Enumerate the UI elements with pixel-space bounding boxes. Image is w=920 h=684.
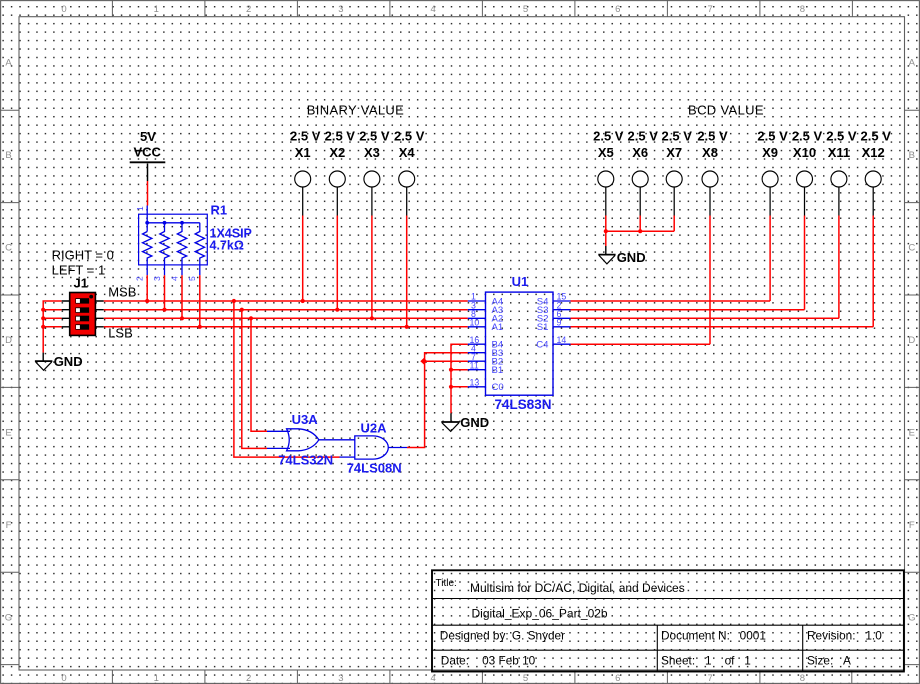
wire bus row3: [104, 317, 468, 319]
svg-text:5: 5: [187, 276, 197, 281]
svg-text:14: 14: [557, 335, 567, 345]
svg-text:74LS08N: 74LS08N: [347, 461, 402, 476]
svg-text:C0: C0: [492, 382, 504, 393]
svg-text:B: B: [909, 150, 915, 161]
ground GND (below U1): [441, 413, 489, 431]
svg-text:X6: X6: [632, 145, 648, 160]
pin 4 B3: [468, 352, 486, 354]
svg-text:E: E: [909, 428, 915, 439]
probe X12: [861, 128, 892, 326]
pin 2 S3: [553, 309, 571, 311]
probe X3: [359, 128, 390, 320]
wire S2 to X11: [571, 317, 839, 319]
svg-text:2.5 V: 2.5 V: [394, 128, 425, 143]
pin 11 B1: [468, 369, 486, 371]
svg-text:2.5 V: 2.5 V: [628, 128, 659, 143]
IC U1 74LS83N: [468, 274, 571, 412]
pin 9 S1: [553, 326, 571, 328]
svg-text:3: 3: [338, 673, 343, 684]
svg-text:2.5 V: 2.5 V: [662, 128, 693, 143]
svg-text:MSB: MSB: [108, 285, 136, 300]
svg-text:6: 6: [615, 673, 620, 684]
svg-text:X8: X8: [702, 145, 718, 160]
svg-text:Size: A: Size: A: [807, 654, 851, 668]
svg-text:A: A: [5, 58, 12, 69]
svg-text:LSB: LSB: [108, 326, 133, 341]
svg-text:C: C: [908, 243, 915, 254]
and-gate U2A 74LS08N: [340, 420, 408, 475]
svg-text:Sheet: 1 of 1: Sheet: 1 of 1: [661, 654, 751, 668]
wire C4 to X8: [571, 343, 711, 345]
wire R1 pin3 to bus row2: [164, 275, 166, 310]
wire U1 B4 B1 C0 to ground: [451, 344, 468, 413]
svg-text:2.5 V: 2.5 V: [325, 128, 356, 143]
pin 1 A4: [468, 300, 486, 302]
wire X5 X6 X7 tie to ground: [606, 231, 674, 246]
svg-text:X11: X11: [828, 145, 850, 160]
junction R1-row2: [162, 308, 166, 312]
junction J1-gnd row2: [41, 308, 45, 312]
probe X9: [757, 128, 788, 301]
wire R1 pin4 to bus row3: [181, 275, 183, 318]
svg-text:5: 5: [523, 673, 528, 684]
svg-text:5: 5: [523, 4, 528, 15]
connector J1: [62, 276, 104, 336]
svg-text:0: 0: [61, 673, 66, 684]
svg-text:2.5 V: 2.5 V: [861, 128, 892, 143]
svg-text:4: 4: [431, 673, 436, 684]
svg-text:X7: X7: [666, 145, 682, 160]
svg-text:X4: X4: [399, 145, 416, 160]
svg-text:2.5 V: 2.5 V: [826, 128, 857, 143]
resistor pack R1 1X4SIP: [135, 203, 252, 282]
svg-text:2: 2: [246, 4, 251, 15]
wire bus row1 MSB: [104, 300, 468, 302]
svg-text:X2: X2: [329, 145, 345, 160]
pin 16 B4: [468, 343, 486, 345]
svg-text:VCC: VCC: [133, 145, 161, 160]
or-gate U3A 74LS32N: [267, 412, 355, 468]
svg-text:1: 1: [154, 4, 159, 15]
svg-text:2.5 V: 2.5 V: [792, 128, 823, 143]
TITLEBLOCK: [432, 570, 904, 671]
pin 14 C4: [553, 343, 571, 345]
svg-text:GND: GND: [460, 415, 489, 430]
svg-text:3: 3: [338, 4, 343, 15]
svg-text:Document N: 0001: Document N: 0001: [661, 629, 766, 643]
power VCC 5V: [130, 129, 166, 181]
probe X10: [792, 128, 823, 309]
svg-text:10: 10: [470, 317, 480, 327]
svg-text:3: 3: [152, 276, 162, 281]
svg-text:D: D: [5, 335, 12, 346]
probe X8: [697, 128, 728, 344]
pin 10 A1: [468, 326, 486, 328]
svg-text:G: G: [5, 613, 12, 624]
svg-text:C: C: [5, 243, 12, 254]
wire row2 to U3A input B: [242, 310, 267, 449]
svg-text:2.5 V: 2.5 V: [359, 128, 390, 143]
wire R1 pin2 to bus row1: [146, 275, 148, 301]
wire row1 to U2A input B: [234, 301, 340, 457]
wire VCC to R1 pin 1: [147, 181, 149, 206]
svg-text:2: 2: [246, 673, 251, 684]
svg-text:U2A: U2A: [361, 420, 388, 435]
probe X5: [593, 128, 624, 231]
svg-text:BCD VALUE: BCD VALUE: [688, 103, 764, 118]
probe X2: [325, 128, 356, 312]
junction B1-gnd: [449, 368, 453, 372]
svg-text:GND: GND: [54, 354, 83, 369]
svg-text:Digital_Exp_06_Part_02b: Digital_Exp_06_Part_02b: [472, 607, 608, 621]
svg-text:13: 13: [470, 377, 480, 387]
junction row2-drop: [240, 308, 244, 312]
svg-text:2.5 V: 2.5 V: [593, 128, 624, 143]
svg-text:7: 7: [707, 4, 712, 15]
probe X11: [826, 128, 857, 318]
svg-text:B1: B1: [492, 365, 504, 376]
junction B2 tap: [420, 358, 427, 365]
svg-text:R1: R1: [211, 203, 228, 218]
wire S4 to X9: [571, 300, 771, 302]
svg-text:8: 8: [800, 4, 805, 15]
svg-text:BINARY VALUE: BINARY VALUE: [307, 103, 404, 118]
svg-text:7: 7: [707, 673, 712, 684]
svg-text:Revision: 1.0: Revision: 1.0: [807, 629, 882, 643]
svg-text:4.7kΩ: 4.7kΩ: [210, 239, 244, 253]
wire row3 to U3A input A: [251, 318, 267, 431]
pin 13 C0: [468, 386, 486, 388]
svg-text:E: E: [5, 428, 11, 439]
pin 7 B2: [468, 360, 486, 362]
svg-text:1: 1: [135, 206, 145, 211]
svg-text:X9: X9: [762, 145, 778, 160]
ground GND (left of J1): [35, 353, 83, 371]
junction X6 tie: [638, 229, 642, 233]
ground GND (BCD probes): [598, 246, 645, 265]
probe X1: [290, 128, 321, 303]
svg-text:2.5 V: 2.5 V: [757, 128, 788, 143]
svg-text:X1: X1: [295, 145, 311, 160]
svg-text:74LS32N: 74LS32N: [278, 452, 333, 467]
wire R1 pin5 to bus row4: [199, 275, 201, 327]
junction row3-drop: [249, 316, 253, 320]
svg-text:A: A: [909, 58, 916, 69]
pin 15 S4: [553, 300, 571, 302]
wire bus row4 LSB: [104, 326, 468, 328]
junction R1-row4: [198, 325, 202, 329]
probe X7: [662, 128, 693, 231]
svg-text:11: 11: [470, 360, 479, 370]
junction J1-gnd row3: [41, 316, 45, 320]
svg-text:F: F: [909, 520, 915, 531]
svg-text:0: 0: [61, 4, 66, 15]
pin 8 A2: [468, 317, 486, 319]
svg-text:2.5 V: 2.5 V: [697, 128, 728, 143]
probe X4: [394, 128, 425, 329]
svg-text:Date: 03 Feb 10: Date: 03 Feb 10: [441, 654, 536, 668]
wire U2A output to U1 B3 and B2: [407, 353, 468, 448]
svg-text:B: B: [5, 150, 11, 161]
svg-text:X3: X3: [364, 145, 380, 160]
wire S1 to X12: [571, 326, 874, 328]
junction C0-gnd: [449, 385, 453, 389]
wire J1 left pins to ground: [43, 301, 61, 353]
svg-text:6: 6: [615, 4, 620, 15]
svg-text:X12: X12: [862, 145, 885, 160]
svg-text:X10: X10: [793, 145, 816, 160]
wire bus row2: [104, 309, 468, 311]
svg-text:S1: S1: [537, 322, 549, 333]
svg-text:Title:: Title:: [436, 578, 457, 589]
pin 6 S2: [553, 317, 571, 319]
svg-text:8: 8: [800, 673, 805, 684]
svg-text:J1: J1: [74, 276, 88, 291]
svg-text:2.5 V: 2.5 V: [290, 128, 321, 143]
svg-text:X5: X5: [598, 145, 614, 160]
junction R1-row1: [145, 299, 149, 303]
junction X5 tie: [604, 229, 608, 233]
svg-text:D: D: [908, 335, 915, 346]
wire S3 to X10: [571, 309, 805, 311]
junction row1-drop: [232, 299, 236, 303]
probe X6: [628, 128, 659, 231]
svg-text:74LS83N: 74LS83N: [495, 397, 552, 412]
svg-text:5V: 5V: [140, 129, 156, 144]
svg-text:U3A: U3A: [292, 412, 319, 427]
svg-text:RIGHT = 0: RIGHT = 0: [52, 248, 114, 263]
junction R1-row3: [180, 316, 184, 320]
junction J1-gnd row4: [41, 325, 45, 329]
svg-text:4: 4: [169, 276, 179, 281]
svg-text:U1: U1: [512, 274, 529, 289]
svg-text:Multisim for DC/AC, Digital, a: Multisim for DC/AC, Digital, and Devices: [470, 581, 685, 595]
svg-text:1: 1: [154, 673, 159, 684]
svg-text:G: G: [908, 613, 915, 624]
svg-text:C4: C4: [536, 340, 549, 351]
svg-text:A1: A1: [492, 322, 504, 333]
svg-text:Designed by: G. Snyder: Designed by: G. Snyder: [440, 629, 565, 643]
svg-text:F: F: [6, 520, 12, 531]
pin 3 A3: [468, 309, 486, 311]
svg-text:4: 4: [431, 4, 436, 15]
svg-text:9: 9: [557, 317, 562, 327]
svg-text:GND: GND: [617, 250, 646, 265]
svg-text:2: 2: [135, 276, 145, 281]
